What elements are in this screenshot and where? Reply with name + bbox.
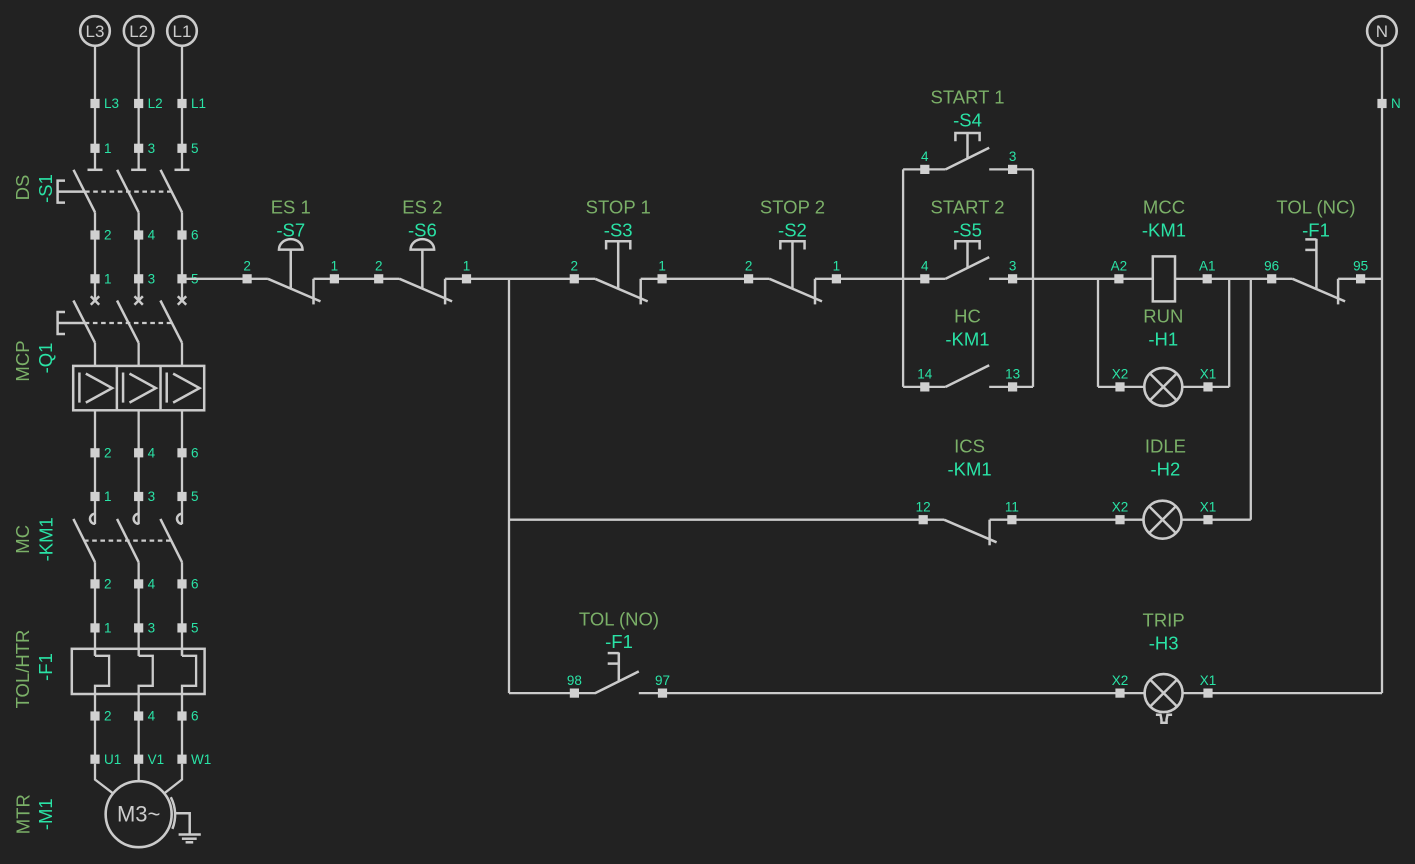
svg-text:-KM1: -KM1 bbox=[945, 328, 989, 349]
terminal pin 4 START1 bbox=[920, 149, 929, 174]
thermal actuator TOL NC bbox=[1305, 239, 1316, 289]
svg-text:N: N bbox=[1391, 96, 1401, 111]
svg-text:X2: X2 bbox=[1112, 500, 1129, 515]
wire parallel rail left bbox=[902, 169, 904, 387]
svg-text:2: 2 bbox=[104, 228, 112, 243]
svg-text:3: 3 bbox=[148, 271, 156, 286]
terminal pin 96 TOL NC bbox=[1264, 259, 1279, 284]
pushbutton actuator STOP2 -S2 bbox=[780, 241, 804, 289]
stop pushbutton contact STOP2 -S2 (NC) bbox=[769, 279, 822, 305]
wire TOL NC to N rail bbox=[1338, 278, 1382, 280]
holding contact HC -KM1 (NO aux) bbox=[946, 365, 990, 387]
svg-text:RUN: RUN bbox=[1143, 306, 1183, 327]
wire START1 branch right bbox=[989, 168, 1033, 170]
terminal pin 5 TOL top bbox=[177, 621, 198, 656]
svg-text:A2: A2 bbox=[1111, 259, 1128, 274]
wire ES2 to STOP1 bbox=[445, 278, 595, 280]
terminal U1 motor bbox=[90, 752, 121, 767]
pushbutton actuator STOP1 -S3 bbox=[606, 241, 630, 289]
lamp holder symbol TRIP bbox=[1156, 715, 1172, 723]
terminal pin 4 MC bottom bbox=[134, 577, 156, 628]
terminal pin 2 ES1 bbox=[243, 259, 252, 284]
svg-text:-S6: -S6 bbox=[408, 219, 437, 240]
svg-text:2: 2 bbox=[104, 709, 112, 724]
svg-text:N: N bbox=[1376, 22, 1388, 41]
terminal pin 14 HC bbox=[917, 367, 933, 392]
svg-text:6: 6 bbox=[191, 577, 199, 592]
svg-text:6: 6 bbox=[191, 228, 199, 243]
terminal pin 2 MCP bottom bbox=[90, 445, 111, 496]
pushbutton actuator START2 -S5 bbox=[955, 241, 979, 268]
terminal pin 1 STOP1 bbox=[658, 259, 667, 284]
svg-text:A1: A1 bbox=[1199, 259, 1216, 274]
source terminal L1 bbox=[167, 16, 197, 46]
svg-text:2: 2 bbox=[745, 259, 753, 274]
svg-text:-F1: -F1 bbox=[605, 631, 633, 652]
svg-text:ICS: ICS bbox=[954, 436, 985, 457]
wire main control line segment 1 bbox=[182, 278, 268, 280]
svg-text:X1: X1 bbox=[1200, 673, 1217, 688]
indicator lamp IDLE -H2 bbox=[1144, 501, 1182, 539]
terminal pin 2 MC bottom bbox=[90, 577, 111, 628]
svg-text:4: 4 bbox=[921, 259, 929, 274]
wire START1 branch left bbox=[903, 168, 946, 170]
svg-text:-Q1: -Q1 bbox=[35, 343, 56, 374]
thermal actuator TOL NO bbox=[608, 653, 619, 682]
wire parallel rail right bbox=[1032, 169, 1034, 387]
svg-text:TOL (NO): TOL (NO) bbox=[579, 609, 659, 630]
terminal pin 2 ES2 bbox=[374, 259, 383, 284]
overload relay TOL/HTR -F1 bbox=[72, 649, 205, 716]
contactor MC -KM1 main contacts bbox=[73, 514, 182, 584]
svg-text:5: 5 bbox=[191, 489, 199, 504]
wire ES1 to ES2 bbox=[314, 278, 400, 280]
svg-text:V1: V1 bbox=[148, 752, 165, 767]
interlock contact ICS -KM1 (NC aux) bbox=[944, 520, 997, 546]
terminal pin 2 DS bottom bbox=[90, 228, 111, 279]
svg-text:L2: L2 bbox=[129, 22, 148, 41]
svg-text:98: 98 bbox=[567, 673, 582, 688]
terminal pin 4 TOL bottom bbox=[134, 709, 156, 760]
svg-text:11: 11 bbox=[1005, 500, 1019, 515]
terminal pin 12 ICS bbox=[916, 500, 931, 525]
terminal pin 11 ICS bbox=[1005, 500, 1019, 525]
terminal pin 6 MC bottom bbox=[177, 577, 198, 628]
svg-text:4: 4 bbox=[148, 445, 156, 460]
svg-text:4: 4 bbox=[148, 577, 156, 592]
svg-text:L1: L1 bbox=[173, 22, 192, 41]
terminal pin 4 MCP bottom bbox=[134, 445, 156, 496]
wire neutral rail bbox=[1381, 46, 1383, 693]
wire HC branch right bbox=[989, 386, 1033, 388]
start pushbutton contact START1 -S4 (NO) bbox=[946, 148, 990, 170]
terminal pin X1 RUN bbox=[1200, 367, 1217, 392]
pushbutton actuator ES2 -S6 bbox=[411, 239, 435, 289]
svg-text:X1: X1 bbox=[1200, 500, 1217, 515]
svg-text:3: 3 bbox=[148, 489, 156, 504]
svg-text:-F1: -F1 bbox=[35, 653, 56, 681]
svg-text:3: 3 bbox=[148, 141, 156, 156]
svg-text:14: 14 bbox=[917, 367, 933, 382]
svg-text:L1: L1 bbox=[191, 96, 206, 111]
svg-text:-F1: -F1 bbox=[1302, 219, 1330, 240]
terminal pin 97 TOL NO bbox=[655, 673, 670, 698]
stop pushbutton contact STOP1 -S3 (NC) bbox=[595, 279, 648, 305]
terminal L2 bbox=[134, 96, 163, 111]
terminal pin A2 MCC bbox=[1111, 259, 1128, 284]
terminal pin 2 STOP1 bbox=[570, 259, 579, 284]
svg-text:2: 2 bbox=[104, 445, 112, 460]
svg-text:4: 4 bbox=[148, 228, 156, 243]
svg-text:3: 3 bbox=[1009, 259, 1017, 274]
start pushbutton contact START2 -S5 (NO) bbox=[946, 257, 990, 279]
wire RUN branch left bbox=[1098, 386, 1144, 388]
svg-text:START 2: START 2 bbox=[930, 197, 1004, 218]
svg-text:1: 1 bbox=[833, 259, 841, 274]
svg-text:-M1: -M1 bbox=[35, 798, 56, 830]
terminal L1 bbox=[177, 96, 206, 111]
terminal pin 5 MCP top bbox=[177, 271, 198, 299]
svg-text:MCC: MCC bbox=[1143, 197, 1185, 218]
svg-text:IDLE: IDLE bbox=[1145, 436, 1186, 457]
terminal pin 1 DS top bbox=[90, 141, 111, 156]
svg-text:1: 1 bbox=[104, 621, 112, 636]
svg-text:TOL (NC): TOL (NC) bbox=[1276, 197, 1355, 218]
svg-text:1: 1 bbox=[658, 259, 666, 274]
terminal pin 1 ES2 bbox=[462, 259, 471, 284]
terminal pin 1 MCP top bbox=[90, 271, 111, 299]
overload contact TOL (NC) -F1 bbox=[1293, 279, 1346, 305]
svg-text:W1: W1 bbox=[191, 752, 211, 767]
svg-text:12: 12 bbox=[916, 500, 931, 515]
svg-text:2: 2 bbox=[375, 259, 383, 274]
svg-text:2: 2 bbox=[571, 259, 579, 274]
svg-text:X1: X1 bbox=[1200, 367, 1217, 382]
svg-text:1: 1 bbox=[331, 259, 339, 274]
svg-text:3: 3 bbox=[1009, 149, 1017, 164]
wire L2 feeder bbox=[137, 46, 139, 170]
coil MCC -KM1 bbox=[1153, 256, 1175, 301]
svg-text:MCP: MCP bbox=[12, 340, 33, 381]
svg-text:-H1: -H1 bbox=[1148, 328, 1178, 349]
terminal pin 2 TOL bottom bbox=[90, 709, 111, 760]
svg-text:M3~: M3~ bbox=[117, 802, 160, 827]
overload contact TOL (NO) -F1 bbox=[595, 671, 639, 693]
svg-text:STOP 2: STOP 2 bbox=[760, 197, 825, 218]
terminal pin 6 TOL bottom bbox=[177, 709, 198, 760]
terminal pin 4 DS bottom bbox=[134, 228, 156, 279]
terminal pin X2 TRIP bbox=[1112, 673, 1129, 698]
svg-text:13: 13 bbox=[1005, 367, 1020, 382]
source terminal L2 bbox=[124, 16, 154, 46]
terminal pin 3 START2 bbox=[1008, 259, 1017, 284]
disconnect switch DS -S1 bbox=[58, 170, 190, 235]
svg-text:2: 2 bbox=[104, 577, 112, 592]
wire IDLE riser bbox=[1250, 279, 1252, 520]
svg-text:L3: L3 bbox=[104, 96, 119, 111]
terminal W1 motor bbox=[177, 752, 211, 767]
terminal pin 3 START1 bbox=[1008, 149, 1017, 174]
wire L3 feeder bbox=[94, 46, 96, 170]
wire HC branch left bbox=[903, 386, 946, 388]
indicator lamp TRIP -H3 bbox=[1145, 674, 1183, 712]
svg-text:-S2: -S2 bbox=[778, 219, 807, 240]
terminal N bbox=[1377, 96, 1400, 111]
terminal pin 1 MC top bbox=[90, 489, 111, 524]
wire IDLE branch right bbox=[1182, 519, 1251, 521]
terminal pin 3 TOL top bbox=[134, 621, 155, 656]
wire START2 to coil bbox=[989, 278, 1153, 280]
svg-text:-KM1: -KM1 bbox=[947, 458, 991, 479]
emergency stop contact ES2 -S6 (NC) bbox=[400, 279, 453, 305]
svg-text:L3: L3 bbox=[86, 22, 105, 41]
terminal pin 1 ES1 bbox=[330, 259, 339, 284]
wire L1 feeder bbox=[181, 46, 183, 170]
wire coil to TOL NC bbox=[1175, 278, 1293, 280]
svg-text:MC: MC bbox=[12, 525, 33, 554]
svg-text:96: 96 bbox=[1264, 259, 1279, 274]
wire ICS branch left bbox=[509, 519, 944, 521]
terminal pin 95 TOL NC bbox=[1353, 259, 1368, 284]
svg-text:5: 5 bbox=[191, 621, 199, 636]
terminal pin X1 TRIP bbox=[1200, 673, 1217, 698]
svg-text:ES 2: ES 2 bbox=[402, 197, 442, 218]
wire STOP2 to START2 bbox=[815, 278, 946, 280]
circuit breaker MCP -Q1 bbox=[58, 296, 205, 453]
terminal pin 3 MC top bbox=[134, 489, 155, 524]
ground connection bbox=[171, 797, 201, 842]
svg-text:TRIP: TRIP bbox=[1143, 610, 1185, 631]
svg-text:-H3: -H3 bbox=[1149, 632, 1179, 653]
terminal pin X2 RUN bbox=[1112, 367, 1129, 392]
wire TRIP branch left bbox=[509, 692, 596, 694]
wire TOL NO to TRIP lamp bbox=[639, 692, 1145, 694]
svg-text:DS: DS bbox=[12, 175, 33, 201]
svg-text:U1: U1 bbox=[104, 752, 121, 767]
svg-text:1: 1 bbox=[104, 489, 112, 504]
svg-text:5: 5 bbox=[191, 141, 199, 156]
pushbutton actuator START1 -S4 bbox=[955, 133, 979, 159]
svg-text:-S3: -S3 bbox=[604, 219, 633, 240]
svg-text:-KM1: -KM1 bbox=[1142, 219, 1186, 240]
terminal pin 98 TOL NO bbox=[567, 673, 582, 698]
terminal pin 4 START2 bbox=[920, 259, 929, 284]
svg-text:97: 97 bbox=[655, 673, 670, 688]
svg-text:START 1: START 1 bbox=[930, 87, 1004, 108]
svg-text:1: 1 bbox=[104, 141, 112, 156]
svg-text:-KM1: -KM1 bbox=[36, 517, 57, 561]
wire left rail down bbox=[508, 279, 510, 693]
svg-text:1: 1 bbox=[104, 271, 112, 286]
svg-text:HC: HC bbox=[954, 306, 981, 327]
terminal V1 motor bbox=[134, 752, 164, 767]
svg-text:-S1: -S1 bbox=[35, 174, 56, 203]
terminal pin 13 HC bbox=[1005, 367, 1020, 392]
svg-text:-S4: -S4 bbox=[953, 109, 982, 130]
svg-text:6: 6 bbox=[191, 445, 199, 460]
emergency stop contact ES1 -S7 (NC) bbox=[268, 279, 321, 305]
indicator lamp RUN -H1 bbox=[1144, 368, 1182, 406]
wire RUN branch right riser bbox=[1228, 279, 1230, 387]
terminal pin 3 DS top bbox=[134, 141, 155, 156]
terminal pin 3 MCP top bbox=[134, 271, 155, 299]
wire RUN branch right bbox=[1182, 386, 1229, 388]
wire ICS to IDLE lamp bbox=[990, 519, 1144, 521]
terminal pin 6 MCP bottom bbox=[177, 445, 198, 496]
svg-text:4: 4 bbox=[148, 709, 156, 724]
svg-text:X2: X2 bbox=[1112, 367, 1129, 382]
terminal pin A1 MCC bbox=[1199, 259, 1216, 284]
terminal pin 5 MC top bbox=[177, 489, 198, 524]
terminal pin X2 IDLE bbox=[1112, 500, 1129, 525]
svg-text:4: 4 bbox=[921, 149, 929, 164]
svg-text:6: 6 bbox=[191, 709, 199, 724]
svg-text:STOP 1: STOP 1 bbox=[586, 197, 651, 218]
svg-text:X2: X2 bbox=[1112, 673, 1129, 688]
svg-text:-H2: -H2 bbox=[1150, 458, 1180, 479]
svg-text:ES 1: ES 1 bbox=[271, 197, 311, 218]
terminal pin 2 STOP2 bbox=[744, 259, 753, 284]
svg-text:-S5: -S5 bbox=[953, 219, 982, 240]
svg-text:-S7: -S7 bbox=[276, 219, 305, 240]
terminal pin X1 IDLE bbox=[1200, 500, 1217, 525]
svg-text:95: 95 bbox=[1353, 259, 1368, 274]
terminal pin 1 STOP2 bbox=[832, 259, 841, 284]
terminal pin 5 DS top bbox=[177, 141, 198, 156]
wire TRIP branch right bbox=[1183, 692, 1382, 694]
wire STOP1 to STOP2 bbox=[641, 278, 770, 280]
svg-text:MTR: MTR bbox=[13, 794, 34, 834]
terminal L3 bbox=[90, 96, 119, 111]
svg-text:1: 1 bbox=[463, 259, 471, 274]
svg-text:2: 2 bbox=[243, 259, 251, 274]
svg-text:3: 3 bbox=[148, 621, 156, 636]
terminal pin 6 DS bottom bbox=[177, 228, 198, 279]
terminal pin 1 TOL top bbox=[90, 621, 111, 656]
svg-text:L2: L2 bbox=[148, 96, 163, 111]
source terminal N bbox=[1367, 16, 1397, 46]
source terminal L3 bbox=[80, 16, 110, 46]
pushbutton actuator ES1 -S7 bbox=[279, 239, 303, 289]
svg-text:TOL/HTR: TOL/HTR bbox=[12, 630, 33, 709]
motor MTR -M1 bbox=[95, 764, 182, 847]
wire RUN branch left drop bbox=[1097, 279, 1099, 387]
